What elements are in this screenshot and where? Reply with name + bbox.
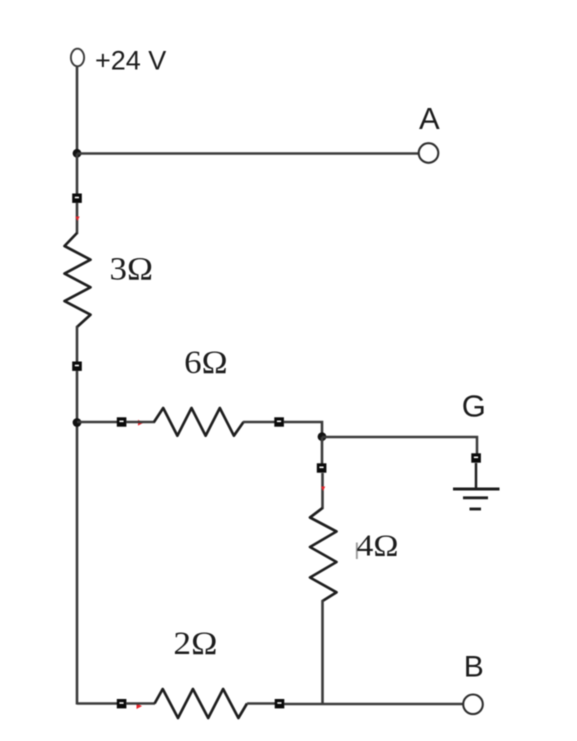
wire +24V terminal to node 1 [76, 67, 79, 154]
resistor R4 2ohm [155, 689, 247, 718]
wire R3 pin to resistor body [321, 473, 324, 509]
svg-text:2Ω: 2Ω [173, 626, 217, 662]
wire R4 body to right pin [247, 702, 275, 705]
pin square R4 left [117, 699, 127, 708]
wire node 1 to R1 pin [76, 154, 79, 195]
wire R3 body to bottom net [321, 600, 324, 705]
wire bottom left corner to R4 pin [77, 702, 117, 705]
svg-text:+24 V: +24 V [95, 46, 166, 76]
wire node 3 to R3 pin [321, 437, 324, 464]
wire left rail R1 to bottom corner [76, 371, 79, 705]
current arrow R4 (red) [137, 703, 143, 709]
resistor R2 6ohm [154, 408, 244, 436]
wire R4 pin to resistor body [127, 702, 156, 705]
resistor R3 4ohm [310, 508, 337, 601]
wire node 2 to R2 pin [77, 421, 117, 424]
junction node 1 [73, 149, 82, 158]
wire node 1 to terminal A [77, 152, 419, 155]
current arrow R2 (red) [138, 420, 144, 426]
svg-text:B: B [464, 651, 484, 684]
pin square R2 left [117, 417, 127, 426]
svg-text:6Ω: 6Ω [184, 345, 228, 381]
current arrow R3 (red) [321, 487, 325, 492]
svg-text:G: G [462, 389, 486, 424]
resistor R1 3ohm [65, 233, 91, 327]
wire R2 pin to resistor body [127, 421, 156, 424]
pin square ground [471, 453, 481, 462]
wire R1 pin to resistor body [76, 203, 79, 234]
svg-text:3Ω: 3Ω [110, 252, 154, 288]
pin square R1 bottom [72, 362, 82, 371]
pin square R1 top [72, 194, 82, 203]
wire R2 pin to node 3 [284, 422, 323, 437]
svg-text:A: A [419, 101, 440, 136]
wire R4 pin to terminal B [284, 703, 464, 706]
ground symbol [453, 463, 500, 509]
junction node 2 [73, 418, 82, 427]
current arrow R1 (red) [75, 217, 79, 222]
pin square R4 right [275, 699, 285, 708]
junction node 3 [318, 432, 327, 441]
label 4 ohm with cursor bar [356, 528, 399, 563]
svg-text:4Ω: 4Ω [357, 528, 399, 563]
terminal B [463, 695, 483, 715]
pin square R2 right [274, 417, 284, 426]
terminal +24V [71, 49, 84, 67]
wire resistor R1 body to bottom pin [76, 326, 79, 362]
wire R2 body to right pin [243, 421, 275, 424]
wire node 3 to ground branch [322, 437, 477, 454]
pin square R3 top [317, 463, 327, 472]
terminal A [419, 143, 439, 163]
